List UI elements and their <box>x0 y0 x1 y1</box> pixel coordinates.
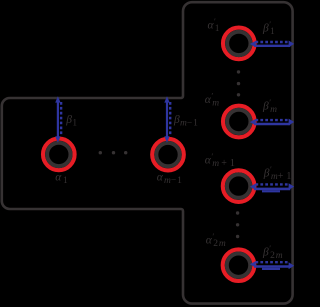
circle alpha_{m-1} : dark ring <box>156 143 179 166</box>
vertical dots between alpha'1 and alpha'm <box>237 70 240 96</box>
beta'_{m+1} curve <box>250 183 294 191</box>
circle alpha'_{2m} : red ring <box>223 249 255 281</box>
beta1 curve (solid line + arrows + dashed line) <box>55 96 61 143</box>
dots between alpha1 and alpha_{m-1} <box>99 151 128 154</box>
circle alpha'_{m+1} : dark ring <box>227 174 250 197</box>
beta_{m-1} curve <box>164 96 170 143</box>
vertical dots between alpha'_{m+1} and alpha'_{2m} <box>236 211 239 238</box>
circle alpha1 : red ring <box>43 139 75 171</box>
circle alpha'_{2m} : dark ring <box>227 254 250 277</box>
beta'm curve <box>250 119 294 126</box>
circle alpha'_{m+1} : red ring <box>223 170 255 202</box>
beta'_{2m} curve <box>250 261 294 269</box>
circle alpha_{m-1} : red ring <box>152 139 184 171</box>
circle alpha'm : dark ring <box>227 110 250 133</box>
beta'1 curve <box>250 41 294 48</box>
circle alpha1 : dark ring <box>47 143 70 166</box>
circle alpha'1 : dark ring <box>227 32 250 55</box>
circle alpha'm : red ring <box>223 106 255 138</box>
circle alpha'1 : red ring <box>223 28 255 60</box>
